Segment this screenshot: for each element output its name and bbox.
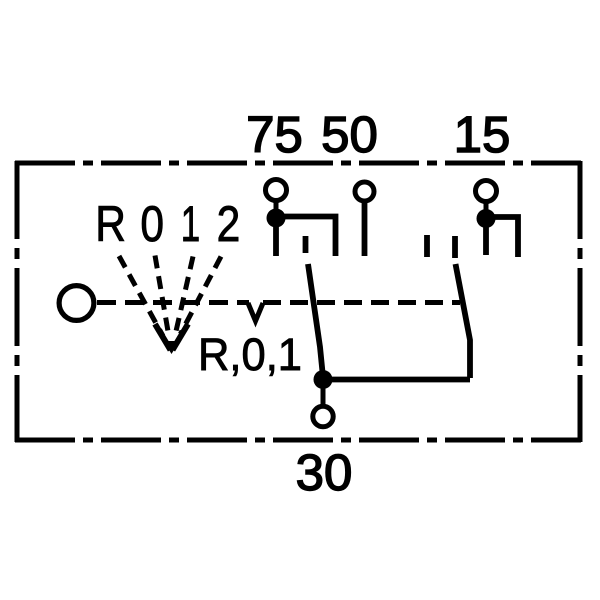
- svg-text:R,0,1: R,0,1: [198, 329, 302, 380]
- contact stub left of 15: [424, 235, 430, 257]
- junction at terminal 75: [267, 209, 286, 228]
- svg-text:15: 15: [454, 106, 511, 163]
- wire: terminal 15 to junction: [484, 202, 489, 214]
- svg-text:75: 75: [246, 106, 303, 163]
- switch housing outline (dash-dot frame): [15, 161, 581, 442]
- svg-text:0: 0: [140, 196, 164, 252]
- wire: arms to terminal 30: [323, 377, 470, 383]
- terminal 15: [476, 181, 497, 202]
- pointer line from R: [119, 256, 163, 336]
- svg-text:30: 30: [296, 444, 353, 501]
- junction at terminal 15: [477, 209, 496, 228]
- terminal 30: [313, 406, 333, 426]
- svg-text:2: 2: [217, 196, 241, 252]
- contact stub between 75 contacts: [303, 236, 309, 253]
- svg-text:50: 50: [321, 106, 378, 163]
- switch arm left (to 75 contacts): [308, 264, 323, 377]
- wire: junction to terminal 30: [321, 388, 326, 405]
- fixed contact under 50: [362, 202, 368, 256]
- mechanical linkage (dashed) left part: [97, 300, 249, 305]
- bracket wire from 15 junction: [486, 217, 518, 257]
- junction at terminal 30: [314, 370, 333, 389]
- pointer line from 2: [180, 257, 221, 335]
- terminal 75: [266, 180, 287, 201]
- pointer line from 0: [155, 256, 169, 338]
- fixed contact under 15: [483, 218, 489, 255]
- bracket wire from 75 junction: [276, 217, 336, 257]
- detent notch: [248, 303, 263, 321]
- key actuator circle: [59, 286, 94, 321]
- pointer line from 1: [175, 257, 193, 338]
- contact stub near 15: [452, 236, 458, 258]
- switch arm right (to 15 contacts): [456, 264, 471, 378]
- mechanical linkage (dashed) right part: [263, 300, 460, 305]
- svg-text:R: R: [95, 196, 126, 252]
- arrowhead right stroke: [173, 324, 189, 350]
- fixed contact under 75: [273, 218, 279, 256]
- arrowhead left stroke: [155, 324, 171, 350]
- terminal 50: [355, 182, 374, 201]
- wire: terminal 75 to junction: [274, 201, 279, 214]
- arrowhead tip: [164, 341, 180, 354]
- svg-text:1: 1: [181, 197, 200, 253]
